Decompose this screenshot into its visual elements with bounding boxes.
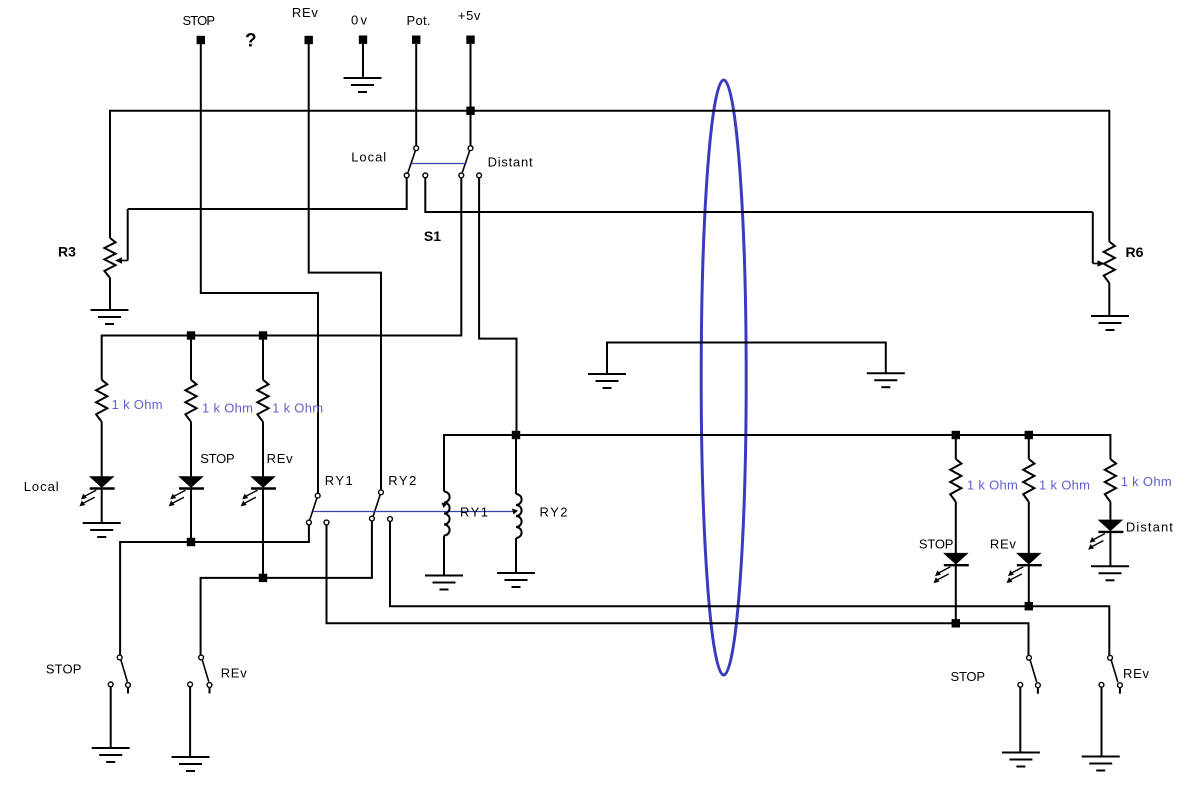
junction rev LED net [259, 574, 267, 582]
svg-text:Distant: Distant [488, 155, 533, 170]
svg-text:RY1: RY1 [325, 473, 353, 488]
ground bottom STOP [92, 748, 130, 762]
LED REv distant [1007, 553, 1042, 583]
wire stop resistor top lead [190, 336, 192, 380]
junction local bus / R rev [259, 331, 267, 339]
svg-text:Local: Local [24, 479, 59, 494]
junction local bus / R stop [187, 331, 195, 339]
wire RY2 throw-L to rev LED bus and bottom REv switch [201, 521, 372, 655]
wire RY1 throw-L to stop LED bus and bottom STOP switch [120, 525, 309, 655]
terminal 0v [359, 36, 367, 44]
svg-text:RY2: RY2 [388, 473, 416, 488]
contact RY1 pole [315, 493, 320, 498]
contact S1 pole B [468, 146, 473, 151]
wire REv terminal to RY2 contact pole [309, 44, 381, 490]
contact distant STOP ground contact [1018, 682, 1023, 687]
contact bottom REv ground contact [188, 682, 193, 687]
junction relay bus / R rev distant [1025, 431, 1033, 439]
wire +5v terminal to S1 pole B [470, 44, 472, 146]
svg-text:?: ? [245, 31, 257, 52]
svg-text:1 k Ohm: 1 k Ohm [272, 401, 323, 416]
svg-text:STOP: STOP [951, 669, 986, 684]
junction distant stop LED net [952, 619, 960, 627]
terminal STOP [197, 36, 205, 44]
ground R6 [1091, 316, 1129, 330]
wire distant rev LED top lead [1028, 502, 1030, 554]
wire 0v terminal to ground [362, 44, 364, 77]
wire RY2 coil to ground [515, 538, 517, 573]
wire local LED top lead [101, 422, 103, 477]
wire bottom REv contact to ground [189, 687, 191, 757]
wire S1 A-Local to R3 wiper line [128, 178, 407, 209]
wire S1 B-Local to local LED bus [102, 178, 462, 380]
contact S1 throw A-Distant [423, 173, 428, 178]
wire distant stop LED bottom lead [955, 566, 957, 624]
wire RY1 coil to ground [443, 536, 445, 576]
svg-text:RY1: RY1 [460, 505, 488, 520]
wire distant LED to ground [1109, 532, 1111, 566]
svg-text:1 k Ohm: 1 k Ohm [1121, 474, 1172, 489]
resistor R stop distant 1k [950, 459, 961, 502]
resistor R rev distant 1k [1023, 459, 1034, 502]
blade RY2 [373, 495, 380, 517]
contact RY2 pole [379, 490, 384, 495]
contact bottom STOP throw [126, 683, 131, 688]
wire distant stop LED top lead [955, 502, 957, 554]
svg-text:R6: R6 [1126, 244, 1144, 260]
junction +5v on top bus [466, 107, 474, 115]
wire distant stop resistor top lead [955, 435, 957, 459]
svg-text:REv: REv [1123, 666, 1150, 681]
ground RY2 coil [497, 573, 535, 587]
contact distant REv pole [1108, 655, 1113, 660]
wire local LED to ground [101, 489, 103, 522]
wire distant LED top lead [1109, 502, 1111, 520]
ground middle left [588, 374, 626, 388]
svg-text:STOP: STOP [183, 13, 216, 28]
svg-text:Local: Local [351, 150, 386, 165]
svg-text:STOP: STOP [200, 451, 235, 466]
wire STOP terminal to RY1 contact pole [201, 44, 318, 493]
contact RY2 throw L [370, 516, 375, 521]
ground distant REv [1082, 757, 1120, 771]
contact bottom REv pole [199, 655, 204, 660]
svg-text:1 k Ohm: 1 k Ohm [112, 397, 163, 412]
svg-text:+5v: +5v [458, 8, 481, 23]
wire R3 wiper riser [127, 209, 129, 261]
blade S1-B [462, 151, 469, 173]
contact S1 throw B-Local [459, 173, 464, 178]
svg-text:1 k Ohm: 1 k Ohm [1039, 477, 1090, 492]
contact S1 throw B-Distant [477, 173, 482, 178]
ground RY1 coil [425, 576, 463, 590]
blade bottom REv [202, 660, 209, 682]
LED Local [79, 477, 114, 507]
wire S1 B-Distant to relay bus [479, 178, 516, 435]
wire RY2 throw-R to distant REv switch [390, 522, 1109, 656]
wire distant rev resistor top lead [1028, 435, 1030, 459]
wiper R6 [1093, 260, 1105, 266]
blade distant STOP [1030, 660, 1037, 682]
ground R3 [91, 310, 129, 324]
svg-text:REv: REv [221, 665, 248, 680]
wire top bus R3 top to R6 top [110, 111, 1109, 242]
blade distant REv [1111, 660, 1118, 682]
svg-text:RY2: RY2 [540, 505, 568, 520]
contact S1 pole A [414, 146, 419, 151]
wire bottom STOP contact to ground [110, 687, 112, 748]
LED Distant [1088, 520, 1123, 550]
contact distant REv throw [1118, 683, 1123, 688]
wire bottom REv throw stub [209, 687, 211, 693]
junction distant rev LED net [1025, 602, 1033, 610]
LED REv local [241, 477, 276, 507]
wire rev resistor top lead [262, 336, 264, 380]
terminal REv [305, 36, 313, 44]
ground distant LED [1091, 566, 1129, 580]
svg-text:1 k Ohm: 1 k Ohm [202, 401, 253, 416]
wire distant REv throw stub [1119, 688, 1121, 694]
LED STOP distant [934, 553, 969, 583]
terminal Pot. [412, 36, 420, 44]
LED STOP local [169, 477, 204, 507]
svg-text:REv: REv [990, 536, 1017, 551]
wire bottom STOP throw stub [127, 687, 129, 693]
resistor R rev 1k [257, 380, 268, 422]
relay coil RY2 [516, 494, 522, 538]
wire rev LED bottom lead [262, 489, 264, 578]
blade RY1 [310, 498, 317, 520]
contact distant STOP throw [1036, 683, 1041, 688]
wire distant rev LED bottom lead [1028, 566, 1030, 607]
cable ellipse (link between local and distant) [701, 80, 746, 675]
ground 0v [344, 78, 382, 92]
ground bottom REv [172, 757, 210, 771]
svg-text:Distant: Distant [1126, 519, 1173, 534]
ground middle right [867, 373, 905, 387]
link relay contacts (mechanical) [313, 511, 513, 513]
wire relay bus RY1 coil to distant resistor [444, 435, 1110, 492]
contact bottom STOP pole [117, 655, 122, 660]
contact S1 throw A-Local [404, 173, 409, 178]
resistor R stop 1k [185, 380, 196, 422]
wire stop LED bottom lead [190, 489, 192, 542]
ground local LED [83, 523, 121, 537]
wire distant STOP contact to ground [1019, 687, 1021, 752]
wiper R3 [115, 257, 128, 263]
contact bottom REv throw [207, 683, 212, 688]
resistor R local 1k [96, 380, 107, 422]
wire rev LED top lead [262, 422, 264, 477]
wire screen wire between middle grounds [607, 343, 886, 374]
link S1 (mechanical) [412, 163, 467, 165]
contact RY1 throw L [307, 520, 312, 525]
wire distant REv contact to ground [1101, 687, 1103, 756]
relay coil RY1 [444, 492, 450, 536]
link arrow RY1 [442, 503, 448, 509]
wire Pot. terminal to S1 pole A [415, 44, 417, 146]
wire R6 wiper riser [1092, 212, 1094, 264]
svg-text:REv: REv [292, 5, 319, 20]
svg-text:REv: REv [267, 451, 294, 466]
wire RY2 coil top lead [515, 435, 517, 494]
svg-text:R3: R3 [58, 244, 76, 260]
resistor R3 body [104, 238, 115, 278]
ground distant STOP [1002, 753, 1040, 767]
junction relay bus / R stop distant [952, 431, 960, 439]
wire stop LED top lead [190, 422, 192, 477]
svg-text:1 k Ohm: 1 k Ohm [967, 477, 1018, 492]
wire R3 bottom lead [109, 278, 111, 310]
svg-text:S1: S1 [424, 228, 441, 244]
svg-text:STOP: STOP [46, 662, 82, 677]
blade bottom STOP [121, 660, 128, 682]
link arrow RY2 [512, 509, 518, 515]
junction relay bus / RY2 coil [512, 431, 520, 439]
svg-text:Pot.: Pot. [407, 13, 431, 28]
wire distant STOP throw stub [1037, 688, 1039, 694]
svg-text:STOP: STOP [919, 536, 954, 551]
resistor R distant 1k [1105, 459, 1116, 502]
contact bottom STOP ground contact [108, 682, 113, 687]
resistor R6 body [1104, 242, 1115, 283]
contact distant STOP pole [1027, 655, 1032, 660]
contact RY2 throw R [388, 517, 393, 522]
junction stop LED net [187, 538, 195, 546]
contact distant REv ground contact [1099, 682, 1104, 687]
wire S1 A-Distant to R6 wiper line [425, 178, 1093, 212]
contact RY1 throw R [324, 520, 329, 525]
terminal +5v [466, 36, 474, 44]
wire RY1 throw-R to distant STOP switch [327, 525, 1029, 655]
wire R6 bottom lead [1108, 283, 1110, 316]
blade S1-A [408, 151, 415, 173]
